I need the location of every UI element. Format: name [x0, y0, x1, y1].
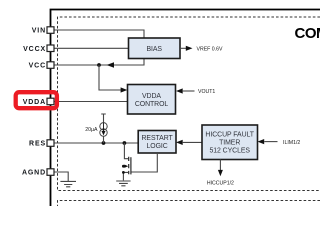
wire HICCUP bottom output	[219, 160, 221, 171]
block RESTART LOGIC	[138, 131, 176, 154]
dashed block boundary (analog section)	[58, 17, 320, 191]
chip boundary	[51, 10, 320, 207]
wire VCCX to BIAS left	[54, 47, 129, 49]
wire RESTART LOGIC to MOSFET gate	[131, 153, 157, 172]
block VDDA CONTROL	[128, 85, 176, 115]
node MOSFET gate junction	[123, 141, 127, 145]
svg-text:CONTROL: CONTROL	[135, 101, 169, 108]
svg-text:VDDA: VDDA	[142, 93, 161, 100]
arrowhead into RESTART LOGIC right	[176, 140, 183, 145]
pin VIN	[47, 27, 54, 34]
wire ILIM1/2	[264, 141, 277, 143]
arrowhead on VCC wire	[107, 62, 115, 68]
svg-text:VCC: VCC	[29, 63, 46, 70]
block BIAS	[129, 38, 181, 59]
pin VDDA	[47, 98, 54, 105]
wire node to VDDA CONTROL	[99, 65, 121, 90]
svg-text:AGND: AGND	[22, 170, 46, 177]
red highlight box around VDDA pin	[16, 92, 57, 108]
svg-text:RESTART: RESTART	[142, 135, 174, 142]
current source 20uA supply bar	[101, 114, 106, 123]
arrowhead HICCUP1/2 down	[218, 170, 223, 176]
svg-text:20µA: 20µA	[85, 127, 98, 133]
wire RESTART to HICCUP	[183, 141, 202, 143]
svg-text:VCCX: VCCX	[23, 46, 46, 53]
wire BIAS output	[180, 47, 186, 49]
svg-text:RES: RES	[29, 141, 46, 148]
pin VCC	[47, 62, 54, 69]
block HICCUP FAULT TIMER	[202, 125, 258, 160]
arrowhead VOUT1 into VDDA CONTROL	[176, 88, 183, 93]
svg-text:BIAS: BIAS	[146, 46, 162, 53]
svg-text:VIN: VIN	[32, 28, 46, 35]
svg-text:COM: COM	[295, 25, 320, 42]
node VCC junction	[97, 63, 101, 67]
transistor Q1 gate bar	[130, 157, 132, 174]
transistor Q1 drain lead	[124, 143, 128, 159]
svg-text:HICCUP1/2: HICCUP1/2	[207, 180, 234, 186]
pin AGND	[47, 169, 54, 176]
wire VCC	[54, 59, 144, 66]
arrowhead VREF output	[186, 46, 193, 51]
wire AGND to ground	[54, 172, 68, 181]
current source 20uA	[100, 123, 107, 130]
wire VIN to BIAS top	[54, 30, 144, 39]
ground below MOSFET	[116, 181, 130, 186]
svg-text:HICCUP FAULT: HICCUP FAULT	[205, 132, 254, 139]
ground at AGND	[60, 181, 76, 186]
svg-text:512 CYCLES: 512 CYCLES	[209, 147, 250, 154]
wire VDDA to VDDA CONTROL	[54, 101, 128, 103]
svg-text:VDDA: VDDA	[23, 99, 46, 106]
svg-text:ILIM1/2: ILIM1/2	[283, 140, 300, 146]
transistor Q1 channel	[128, 157, 130, 175]
svg-text:TIMER: TIMER	[219, 140, 240, 147]
wire VOUT1	[183, 90, 195, 92]
transistor Q1 source lead	[123, 172, 128, 180]
arrowhead into VDDA CONTROL	[121, 87, 128, 92]
wire RES to RESTART LOGIC	[54, 142, 138, 144]
pin RES	[47, 140, 54, 147]
arrowhead ILIM into HICCUP right	[258, 139, 265, 144]
dashed boundary of next section (cropped)	[58, 201, 320, 207]
svg-text:LOGIC: LOGIC	[146, 143, 167, 150]
svg-text:VOUT1: VOUT1	[198, 89, 215, 95]
node current source junction	[102, 141, 106, 145]
transistor Q1 body arrow	[122, 165, 125, 168]
pin VCCX	[47, 45, 54, 52]
svg-text:VREF 0.6V: VREF 0.6V	[197, 46, 223, 52]
